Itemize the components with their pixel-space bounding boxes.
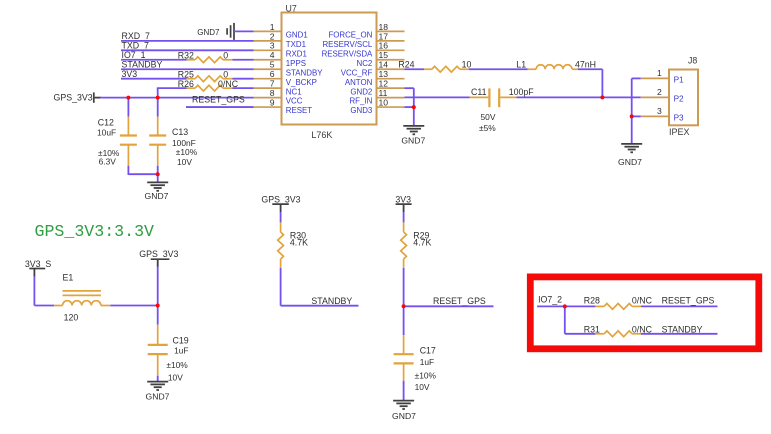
wire riser GPS_3V3 to R26 row [157, 88, 159, 97]
svg-text:NC2: NC2 [357, 59, 373, 68]
U7 pin 18 stub [377, 30, 405, 32]
U7 pin 11 stub [377, 97, 405, 99]
wire joining C12 and C13 bottoms [128, 173, 157, 175]
svg-text:P1: P1 [674, 75, 684, 84]
svg-text:±10%: ±10% [176, 147, 198, 157]
svg-text:1PPS: 1PPS [286, 59, 306, 68]
wire TXD_7 to pin 3 [121, 49, 254, 51]
wire ground riser pins 12/10 [413, 88, 415, 125]
node junction on GPS_3V3 at C13 [156, 96, 160, 100]
wire RESET_GPS to pin 9 [186, 106, 254, 108]
svg-text:47nH: 47nH [575, 59, 596, 69]
svg-text:VCC_RF: VCC_RF [341, 68, 373, 77]
U7 pin 3 stub [253, 49, 282, 51]
wire GPS_3V3 to pin 8 [100, 97, 254, 99]
svg-text:10V: 10V [168, 372, 183, 382]
resistor R28 [595, 305, 604, 307]
svg-text:GND2: GND2 [350, 87, 372, 96]
wire R29 down to RESET_GPS node [403, 268, 405, 306]
resistor R32 [187, 59, 196, 61]
svg-text:U7: U7 [286, 4, 297, 14]
capacitor C19 [157, 306, 159, 325]
resistor R25 [187, 78, 196, 80]
svg-text:C11: C11 [471, 87, 487, 97]
svg-text:GND7: GND7 [197, 28, 220, 37]
wire to R26 [157, 87, 187, 89]
wire R31 to STANDBY [641, 333, 718, 335]
svg-text:GPS_3V3: GPS_3V3 [54, 93, 93, 103]
svg-text:1uF: 1uF [420, 357, 434, 367]
ferrite bead E1 [54, 305, 62, 307]
J8 pin 1 stub [641, 77, 669, 79]
svg-text:RF_IN: RF_IN [349, 97, 372, 106]
svg-text:RESET_GPS: RESET_GPS [433, 296, 486, 306]
capacitor C13 [157, 98, 159, 117]
U7 pin 4 stub [253, 59, 282, 61]
svg-text:GND7: GND7 [618, 157, 642, 167]
svg-text:4.7K: 4.7K [290, 238, 308, 248]
J8 pin 2 stub [641, 96, 669, 98]
node junction R29 / C17 / RESET_GPS [402, 304, 406, 308]
svg-text:P2: P2 [674, 94, 684, 103]
wire R26 to pin 7 [233, 87, 254, 89]
node junction IO7_2 branch [563, 304, 567, 308]
svg-text:L76K: L76K [311, 130, 332, 140]
svg-text:10V: 10V [177, 157, 192, 167]
svg-text:R31: R31 [584, 324, 600, 334]
svg-text:1uF: 1uF [174, 345, 188, 355]
U7 pin 7 stub [253, 87, 282, 89]
ground GND7 below J8 [621, 143, 642, 145]
svg-text:GND7: GND7 [146, 392, 170, 402]
wire R28 to RESET_GPS [641, 305, 718, 307]
svg-text:RESET_GPS: RESET_GPS [662, 296, 715, 306]
svg-text:RXD1: RXD1 [286, 49, 307, 58]
U7 pin 6 stub [253, 78, 282, 80]
wire RXD_7 to pin 2 [121, 40, 254, 42]
highlight red box [530, 277, 759, 349]
J8 pin 3 stub [641, 115, 669, 117]
svg-text:E1: E1 [63, 272, 74, 282]
svg-text:GND7: GND7 [392, 411, 416, 421]
wire IO7_1 to R32 [121, 59, 187, 61]
resistor R26 [187, 87, 196, 89]
resistor R29 [403, 212, 405, 222]
svg-text:GPS_3V3:3.3V: GPS_3V3:3.3V [35, 222, 155, 241]
wire STANDBY to pin 5 [121, 68, 254, 70]
svg-text:R32: R32 [178, 50, 194, 60]
capacitor C17 [403, 306, 405, 335]
wire RESET_GPS (R29) [404, 305, 494, 307]
svg-text:GPS_3V3: GPS_3V3 [261, 195, 300, 205]
svg-text:STANDBY: STANDBY [662, 324, 703, 334]
svg-text:L1: L1 [516, 59, 526, 69]
wire R30 to STANDBY [280, 268, 282, 306]
svg-text:10: 10 [462, 59, 472, 69]
svg-text:0/NC: 0/NC [632, 296, 653, 306]
svg-text:±5%: ±5% [479, 123, 496, 133]
svg-text:NC1: NC1 [286, 87, 302, 96]
IC U7 body (L76K GPS module) [282, 13, 377, 125]
svg-text:RESERV/SCL: RESERV/SCL [322, 40, 372, 49]
wire C11 to J8 pin 2 [516, 96, 640, 98]
svg-text:3: 3 [657, 106, 662, 116]
svg-text:10uF: 10uF [97, 127, 116, 137]
wire E1 to GPS_3V3 node [110, 305, 157, 307]
svg-text:R28: R28 [584, 296, 600, 306]
wire pin 10 to ground riser [405, 106, 414, 108]
wire pin 14 to R24 [405, 68, 425, 70]
svg-text:ANTON: ANTON [345, 78, 373, 87]
svg-text:GPS_3V3: GPS_3V3 [139, 249, 178, 259]
svg-text:FORCE_ON: FORCE_ON [328, 31, 372, 40]
svg-text:RESERV/SDA: RESERV/SDA [322, 49, 373, 58]
U7 pin 5 stub [253, 68, 282, 70]
wire GPS_3V3 port down to node [157, 266, 159, 305]
capacitor C12 [127, 98, 129, 117]
node junction at C13 bottom [156, 172, 160, 176]
svg-text:0: 0 [223, 50, 228, 60]
resistor R30 [280, 212, 282, 222]
svg-text:R26: R26 [178, 79, 194, 89]
svg-text:IPEX: IPEX [669, 127, 690, 137]
svg-text:P3: P3 [674, 113, 684, 122]
U7 pin 15 stub [377, 59, 405, 61]
U7 pin 17 stub [377, 40, 405, 42]
U7 pin 12 stub [377, 87, 405, 89]
U7 pin 9 stub [253, 106, 282, 108]
svg-text:J8: J8 [688, 56, 697, 66]
svg-text:GND3: GND3 [350, 106, 373, 115]
U7 pin 10 stub [377, 106, 405, 108]
svg-text:STANDBY: STANDBY [286, 68, 323, 77]
U7 pin 8 stub [253, 97, 282, 99]
svg-text:1: 1 [657, 68, 662, 78]
wire to GND7 below C13 [157, 174, 159, 182]
wire J8 shield P1 to P3 [631, 78, 633, 116]
ground GND7 power symbol at pin 1 [233, 23, 235, 40]
svg-text:GND7: GND7 [145, 191, 169, 201]
wire 3V3 to R25 [121, 78, 187, 80]
svg-text:V_BCKP: V_BCKP [286, 78, 317, 87]
svg-text:±10%: ±10% [415, 371, 437, 381]
svg-text:C13: C13 [172, 127, 188, 137]
svg-text:GND7: GND7 [401, 136, 425, 146]
U7 pin 14 stub [377, 68, 405, 70]
wire R25 to pin 6 [233, 78, 254, 80]
svg-text:50V: 50V [481, 112, 496, 122]
svg-text:3V3: 3V3 [395, 195, 411, 205]
svg-text:120: 120 [64, 312, 79, 322]
svg-text:3V3: 3V3 [122, 69, 138, 79]
ground GND7 below C12/C13 [147, 181, 168, 183]
node junction pin 10 / ground riser [412, 105, 416, 109]
svg-text:TXD1: TXD1 [286, 40, 306, 49]
svg-text:10V: 10V [415, 382, 430, 392]
wire L1 to antenna node [578, 68, 602, 70]
wire R24 to L1 [469, 68, 528, 70]
U7 pin 2 stub [253, 40, 282, 42]
svg-text:10: 10 [379, 97, 389, 107]
wire IO7_2 branch down to R31 row [564, 306, 566, 333]
svg-text:C12: C12 [98, 118, 114, 128]
resistor R24 [424, 68, 432, 70]
resistor R31 [595, 333, 604, 335]
U7 pin 16 stub [377, 49, 405, 51]
svg-text:2: 2 [657, 87, 662, 97]
wire GND7 symbol to pin 1 [234, 30, 254, 32]
inductor L1 [528, 68, 537, 70]
U7 pin 1 stub [253, 30, 282, 32]
capacitor C11 [470, 96, 489, 98]
svg-text:RESET_GPS: RESET_GPS [192, 95, 245, 105]
svg-text:±10%: ±10% [166, 360, 188, 370]
node junction L1/C11/antenna [600, 95, 604, 99]
node junction at J8 pin 3 [630, 114, 634, 118]
svg-text:VCC: VCC [286, 97, 303, 106]
wire IO7_2 to R28 [537, 305, 595, 307]
wire J8 shield to ground [631, 116, 633, 143]
svg-text:6.3V: 6.3V [99, 156, 117, 166]
svg-text:9: 9 [270, 97, 275, 107]
node junction E1 / C19 [156, 304, 160, 308]
svg-text:4.7K: 4.7K [413, 238, 431, 248]
connector J8 body [669, 70, 698, 126]
node junction on GPS_3V3 at C12 [126, 96, 130, 100]
wire pin 12 to ground riser [405, 87, 414, 89]
svg-text:IO7_2: IO7_2 [538, 295, 562, 305]
ground GND7 below U7 right [403, 125, 424, 127]
svg-text:R24: R24 [398, 59, 414, 69]
svg-text:100pF: 100pF [509, 87, 535, 97]
svg-text:C19: C19 [173, 335, 189, 345]
svg-text:RESET: RESET [286, 106, 312, 115]
ground GND7 below C17 [393, 400, 414, 402]
U7 pin 13 stub [377, 78, 405, 80]
svg-text:GND1: GND1 [286, 31, 308, 40]
wire 3V3_S down to E1 row [33, 276, 35, 305]
wire pin 11 to C11 [405, 96, 470, 98]
svg-text:STANDBY: STANDBY [311, 296, 352, 306]
wire R32 to pin 4 [233, 59, 254, 61]
svg-text:C17: C17 [420, 346, 436, 356]
ground GND7 below C19 [147, 381, 168, 383]
